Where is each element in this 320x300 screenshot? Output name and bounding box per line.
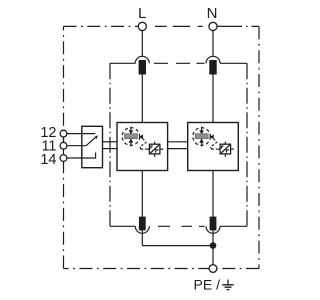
varistor disconnect step upper-left [151,146,153,149]
enclosure border left (dash-dot) [63,26,65,268]
border link between terminals 11-14 [63,149,65,155]
wire L terminal to disconnector [141,31,143,57]
protection module N internals [193,127,234,157]
enclosure border right (dash-dot) [258,26,260,268]
linkage ring top middle (dashed) [154,62,205,64]
enclosure border top-left (dash-dot) [64,25,139,27]
svg-text:PE /: PE / [194,277,221,293]
temperature sensor (gray rectangle) [125,134,138,139]
inter-module link upper [168,141,188,143]
linkage ring left vertical (dash-dot) [109,63,111,226]
switch to module link upper [103,141,118,143]
protection module L internals [122,127,163,157]
linkage ring bottom-right segment [220,225,247,227]
switch arm arrowhead [94,135,98,139]
border link between terminals 12-11 [63,137,65,143]
switch to module link lower [103,148,118,150]
svg-text:14: 14 [40,152,56,168]
protection module L box [117,123,168,171]
varistor stubs [217,148,220,150]
mechanical linkage (dashed zigzag) [211,139,217,151]
linkage ring top-left segment [110,62,135,64]
terminal PE [209,265,217,273]
actuator arrow (pointing left at sensor) [209,135,214,140]
thermal monitoring circle (dashed) [122,128,140,146]
linkage ring top-right segment [220,62,247,64]
varistor (square with diagonal) [220,144,231,154]
terminal L [138,22,146,30]
arrow bottom (pointing up) [130,143,132,147]
hop arc under L bottom [135,226,149,233]
enclosure border top-right (dash-dot) [217,25,259,27]
varistor disconnect step lower-right [226,150,229,153]
hop arc over L top [135,56,149,63]
ground symbol [222,280,233,290]
junction dot [210,242,217,249]
svg-text:N: N [207,5,218,22]
terminal 12 [60,130,67,137]
linkage ring bottom-left segment [110,225,135,227]
varistor stubs [146,148,149,150]
temperature sensor (gray rectangle) [195,134,208,139]
enclosure border top middle (dashes) [155,25,203,27]
thermal disconnector L top (black) [139,60,146,75]
wire L disconnector to module [141,75,143,123]
contact 12 line [67,133,95,135]
actuator arrow (pointing left at sensor) [139,135,144,140]
thermal disconnector N top (black) [209,60,216,75]
arrow top (pointing down) [201,127,203,131]
mechanical linkage (dashed zigzag) [140,139,146,151]
changeover switch arm [86,138,95,146]
linkage ring bottom middle (dashed) [158,225,205,227]
contact 14 line [67,153,96,159]
protection module N box [188,123,239,171]
terminal 11 [60,142,67,149]
varistor disconnect step upper-left [222,146,224,149]
arrow top (pointing down) [130,127,132,131]
linkage ring right vertical (dash-dot) [246,63,248,226]
wire N terminal to disconnector [212,31,214,57]
svg-text:L: L [138,5,146,22]
wire N disconnector to module [212,75,214,123]
contact 11 line [67,145,86,147]
varistor disconnect step lower-right [156,150,159,153]
arrow bottom (pointing up) [201,143,203,147]
terminal 14 [60,155,67,162]
hop arc over N top [206,56,220,63]
thermal monitoring circle (dashed) [193,128,211,146]
thermal disconnector N bottom (black) [210,217,217,231]
enclosure border bottom (dash-dot) [64,268,260,270]
thermal disconnector L bottom (black) [139,217,146,231]
wire bottom horizontal to junction [142,245,213,247]
wire L module to bottom disconnector [141,171,143,246]
varistor (square with diagonal) [149,144,160,154]
hop arc under N bottom [206,226,220,233]
remote signalling contact box [82,126,103,167]
wire N module to junction [212,171,214,265]
terminal N [209,22,217,30]
inter-module link lower [168,148,188,150]
